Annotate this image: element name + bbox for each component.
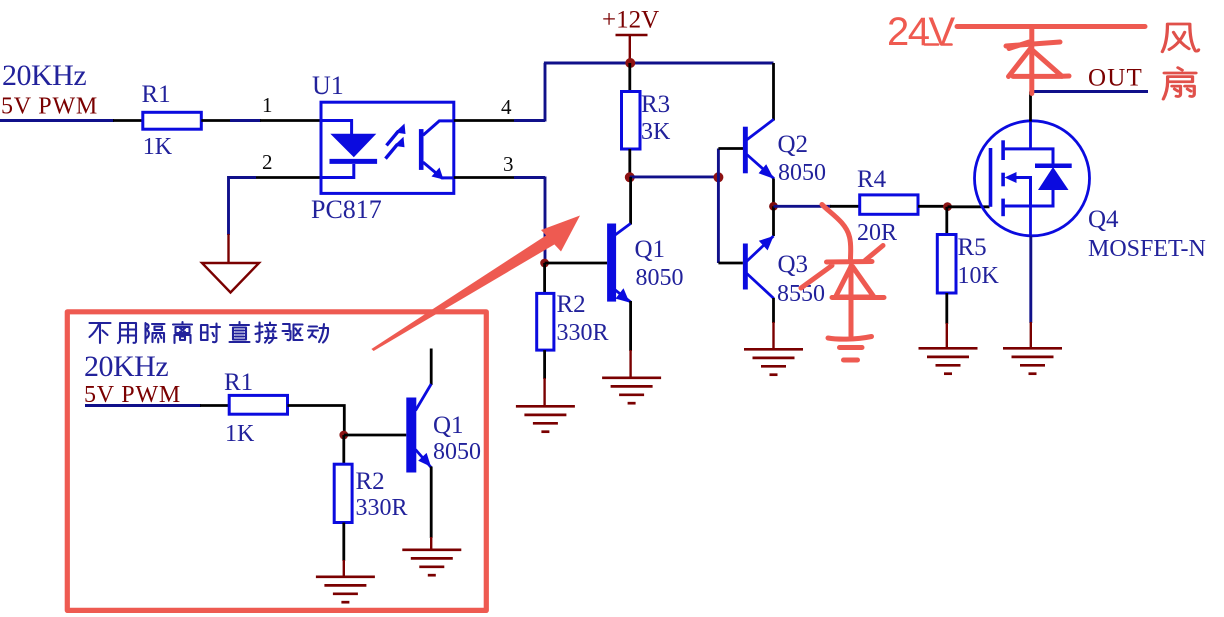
svg-text:20KHz: 20KHz <box>2 59 86 92</box>
note text 不用隔离时 直接驱动 <box>90 322 329 343</box>
diode LED inside U1 <box>321 121 377 178</box>
transistor inside U1 <box>419 121 454 180</box>
transistor Q2 8050 <box>743 63 826 206</box>
resistor R3 <box>622 63 672 177</box>
transistor Q3 8550 <box>743 206 825 349</box>
svg-text:8050: 8050 <box>636 265 684 291</box>
wire R4 to gate node <box>918 205 948 208</box>
LED light arrows <box>386 124 406 159</box>
annotation red box <box>67 312 486 611</box>
annotation 24V supply <box>887 10 1145 54</box>
annotation zener sketch at gate <box>801 205 884 361</box>
power +12V <box>602 7 659 64</box>
wire base rail vertical <box>717 149 720 264</box>
svg-text:PC817: PC817 <box>311 195 382 224</box>
wire U1 pin4 to +12V rail <box>454 119 515 122</box>
wire U1 pin3 down <box>454 176 515 179</box>
svg-text:R4: R4 <box>857 166 887 193</box>
ground below Q4 <box>1003 348 1062 373</box>
svg-text:R2: R2 <box>557 291 586 318</box>
svg-text:2: 2 <box>262 150 273 174</box>
ground below R5 <box>919 348 978 373</box>
svg-text:3K: 3K <box>641 119 671 145</box>
svg-text:8050: 8050 <box>778 160 826 186</box>
resistor R2 (box) <box>334 435 407 577</box>
svg-text:R2: R2 <box>356 468 385 495</box>
transistor Q1 8050 <box>607 177 683 378</box>
resistor R5 <box>937 207 999 348</box>
char 不 <box>90 323 111 343</box>
char 离 <box>173 322 192 343</box>
svg-text:24V: 24V <box>887 10 955 54</box>
char 驱 <box>283 324 303 340</box>
char 扇 <box>1163 68 1196 99</box>
char 隔 <box>146 323 165 343</box>
svg-text:20KHz: 20KHz <box>84 350 168 383</box>
svg-text:OUT: OUT <box>1088 65 1143 92</box>
annotation diode sketch at 24V <box>1006 27 1069 94</box>
svg-text:4: 4 <box>501 95 512 119</box>
wire box input <box>85 404 201 407</box>
node junction Q1 base / R2 <box>540 259 549 268</box>
svg-text:8050: 8050 <box>433 439 481 465</box>
wire input 5V PWM <box>0 119 114 122</box>
ground below Q1 (box) <box>402 550 461 575</box>
char 风 <box>1162 24 1198 52</box>
char 动 <box>308 324 328 343</box>
ground below Q3 <box>744 349 803 374</box>
note text 风扇 <box>1162 24 1198 99</box>
wire R3 node to base rail <box>630 175 719 178</box>
svg-text:Q1: Q1 <box>433 412 464 439</box>
resistor R2 <box>537 263 609 406</box>
wire R1 to node (box) <box>288 406 345 436</box>
ground below Q1 <box>602 378 661 403</box>
svg-text:R3: R3 <box>641 91 670 118</box>
svg-text:20R: 20R <box>857 220 897 246</box>
wire gate <box>948 205 990 208</box>
svg-text:330R: 330R <box>557 320 609 346</box>
resistor R4 <box>857 166 918 246</box>
char 时 <box>201 324 220 343</box>
svg-text:R1: R1 <box>142 81 171 108</box>
node junction base rail <box>713 172 723 182</box>
svg-text:Q2: Q2 <box>778 131 809 158</box>
resistor R1 <box>143 112 202 129</box>
svg-text:1K: 1K <box>143 134 173 160</box>
wire node to Q1 base (box) <box>344 434 407 437</box>
wire output node to R4 <box>774 205 832 208</box>
svg-text:330R: 330R <box>356 495 408 521</box>
wire to Q2 base <box>718 147 744 150</box>
char 接 <box>256 323 277 344</box>
svg-text:+12V: +12V <box>602 7 659 34</box>
node junction R4/R5/gate <box>943 202 952 211</box>
char 直 <box>230 322 250 342</box>
svg-text:10K: 10K <box>958 263 1000 289</box>
node junction rail/R3 <box>625 58 635 68</box>
wire U1 pin2 <box>255 176 321 179</box>
svg-text:3: 3 <box>503 152 514 176</box>
svg-text:Q4: Q4 <box>1088 206 1119 233</box>
svg-text:1: 1 <box>262 93 273 117</box>
transistor Q1 8050 (box) <box>406 349 481 551</box>
node junction R3 bottom <box>625 172 635 182</box>
wire pin4 rail riser <box>544 63 547 122</box>
wire source to ground <box>1029 236 1032 323</box>
annotation big arrow <box>371 216 580 352</box>
char 用 <box>118 323 136 343</box>
svg-text:1K: 1K <box>225 421 255 447</box>
svg-text:U1: U1 <box>312 71 344 100</box>
transistor Q4 MOSFET-N <box>975 121 1206 262</box>
wire R1 to U1 pin1 <box>201 119 231 122</box>
optocoupler U1 PC817 box <box>321 102 454 193</box>
resistor R1 (box) <box>229 395 287 414</box>
wire +12V rail <box>544 62 774 65</box>
ground (triangle) at U1 pin2 <box>202 234 259 293</box>
wire OUT <box>1031 90 1149 93</box>
svg-text:8550: 8550 <box>777 281 825 307</box>
node junction (box) <box>339 431 348 440</box>
wire to Q3 base <box>718 262 743 265</box>
svg-text:R1: R1 <box>224 369 253 396</box>
svg-text:Q3: Q3 <box>778 251 809 278</box>
ground below R2 <box>516 406 575 431</box>
wire node to Q1 base <box>545 262 608 265</box>
svg-text:MOSFET-N: MOSFET-N <box>1088 236 1206 262</box>
svg-text:R5: R5 <box>958 234 987 261</box>
ground below R2 (box) <box>316 577 375 602</box>
node junction Q2/Q3 output <box>769 202 778 211</box>
svg-text:Q1: Q1 <box>635 236 666 263</box>
wire drain up <box>1029 92 1032 122</box>
svg-text:5V PWM: 5V PWM <box>1 94 98 120</box>
